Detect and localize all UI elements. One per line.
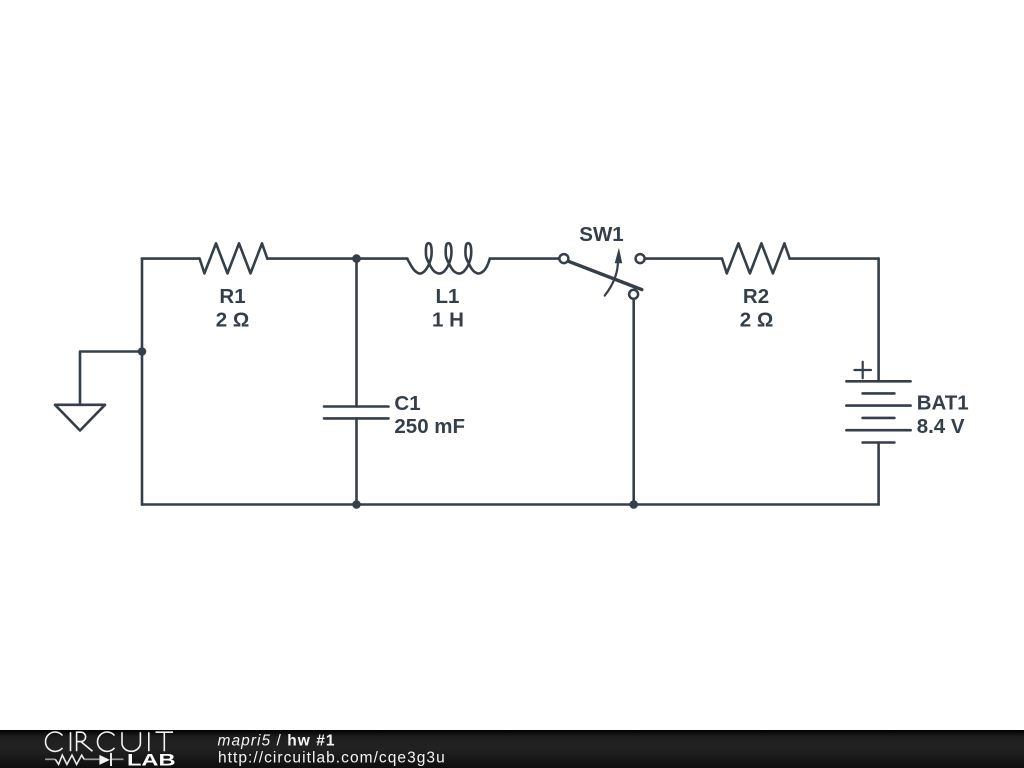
svg-text:1 H: 1 H (432, 309, 464, 332)
svg-text:2 Ω: 2 Ω (740, 309, 774, 332)
svg-text:L1: L1 (436, 285, 460, 308)
svg-text:SW1: SW1 (579, 223, 623, 246)
svg-text:R2: R2 (743, 285, 769, 308)
svg-text:250 mF: 250 mF (394, 415, 465, 438)
svg-text:BAT1: BAT1 (917, 392, 969, 415)
svg-text:mapri5 / hw #1: mapri5 / hw #1 (218, 733, 336, 750)
svg-text:8.4 V: 8.4 V (917, 415, 965, 438)
svg-text:2 Ω: 2 Ω (216, 309, 250, 332)
svg-text:R1: R1 (219, 285, 245, 308)
svg-text:http://circuitlab.com/cqe3g3u: http://circuitlab.com/cqe3g3u (218, 749, 446, 766)
svg-text:C1: C1 (394, 392, 420, 415)
svg-text:LAB: LAB (127, 751, 176, 768)
